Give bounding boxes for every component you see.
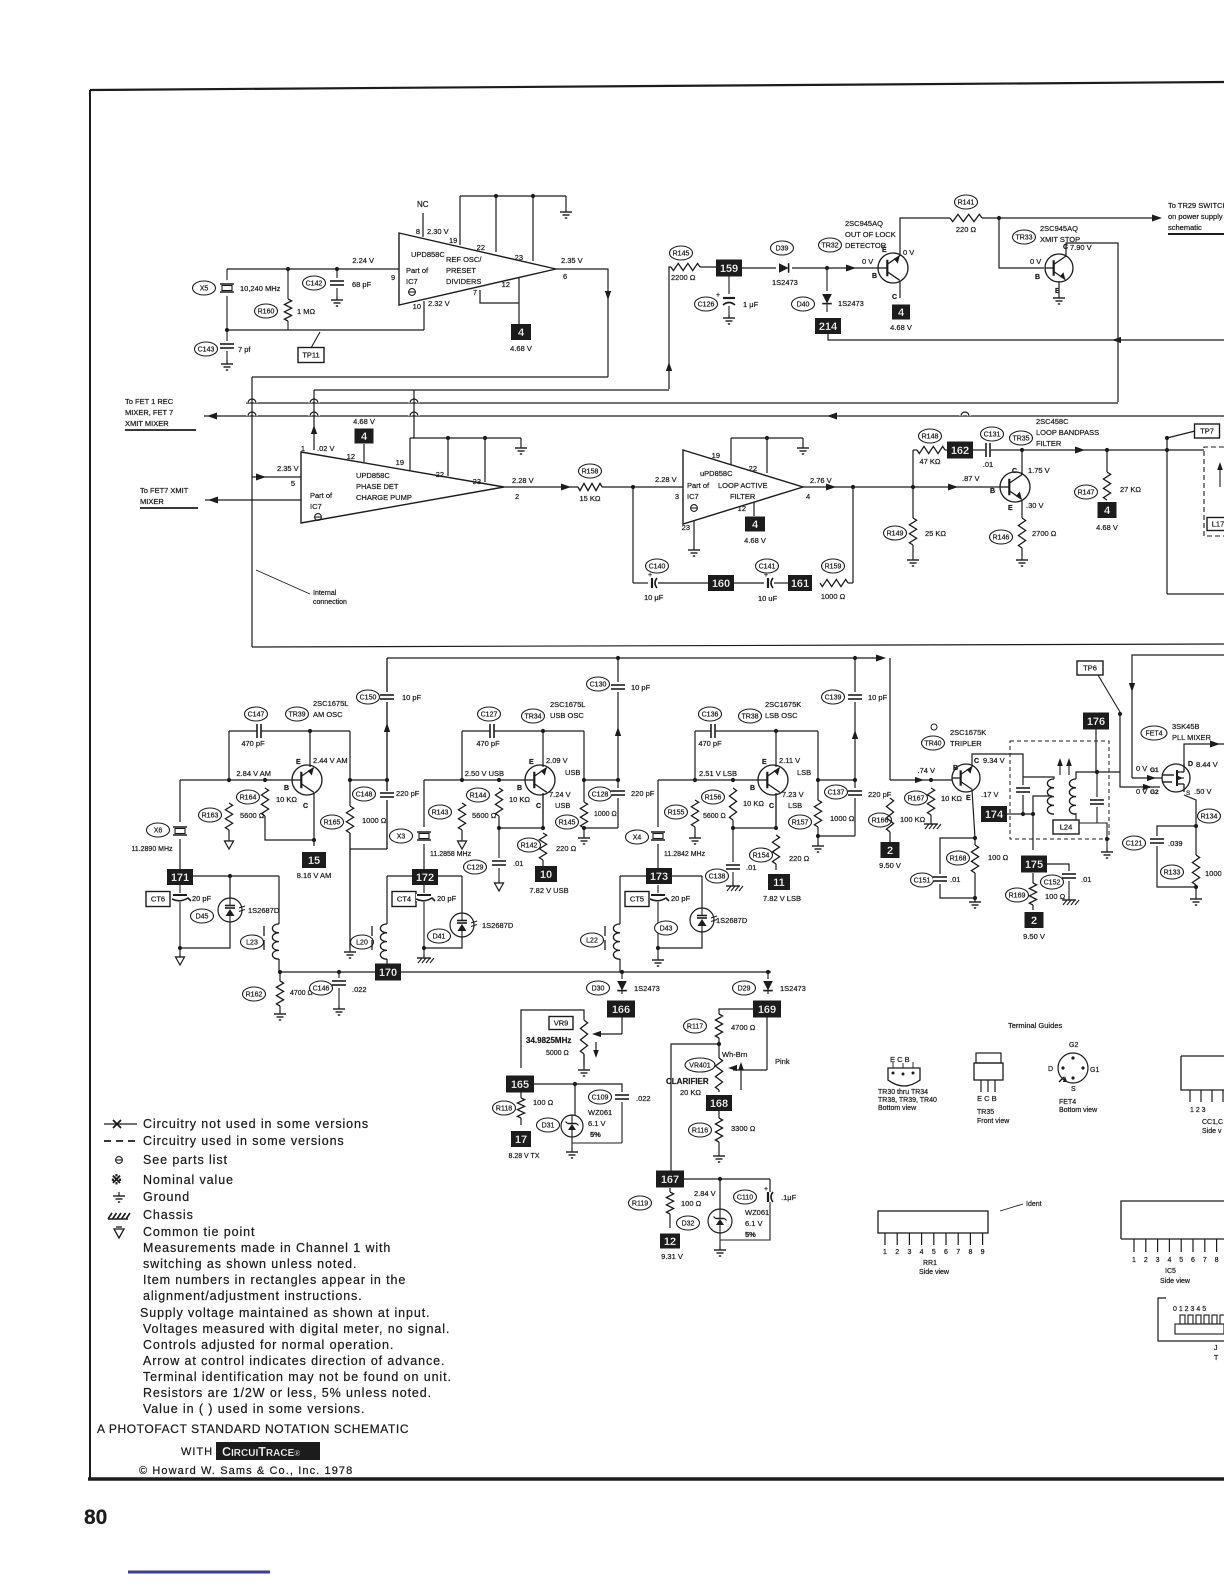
svg-text:J: J [1214,1345,1218,1352]
schematic border frame bottom [88,1477,1224,1481]
u-bus phase det [410,437,521,439]
svg-text:.01: .01 [950,875,960,884]
svg-text:9.31 V: 9.31 V [661,1252,683,1261]
svg-text:470 pF: 470 pF [241,739,265,748]
LSB tank node wires [620,875,646,877]
transistor TR40 label [931,724,937,730]
svg-text:DETECTOR: DETECTOR [845,241,887,250]
svg-text:5600 Ω: 5600 Ω [472,811,497,820]
svg-text:R160: R160 [258,309,275,316]
resistor R160 1M [287,269,289,299]
svg-text:R117: R117 [687,1024,703,1031]
item box 175 [1021,856,1047,873]
svg-text:TR35: TR35 [1012,436,1029,443]
svg-text:+: + [764,572,768,579]
svg-text:E: E [529,759,534,766]
terminal guide IC5 side view [1121,1201,1224,1239]
item box 4 R147 [1098,502,1117,518]
resistor R162 label [243,987,266,1001]
item box 2 tripler [889,832,891,842]
svg-text:1 MΩ: 1 MΩ [297,307,316,316]
svg-text:FILTER: FILTER [730,492,756,501]
svg-text:20 KΩ: 20 KΩ [680,1088,701,1097]
svg-text:AM OSC: AM OSC [313,710,343,719]
svg-text:R156: R156 [705,795,722,802]
svg-text:10 pF: 10 pF [868,693,888,702]
svg-text:10 μF: 10 μF [644,593,664,602]
svg-text:2.44 V AM: 2.44 V AM [313,756,348,765]
svg-text:USB: USB [555,801,570,810]
svg-text:C121: C121 [1126,841,1143,848]
bus B1 vco line [252,644,1224,647]
bus L2 [246,402,1118,404]
capacitor C130 label [587,677,610,691]
svg-text:5000 Ω: 5000 Ω [546,1050,569,1057]
svg-text:6: 6 [944,1249,948,1256]
svg-text:10,240 MHz: 10,240 MHz [240,284,281,293]
svg-text:C152: C152 [1044,880,1061,887]
capacitor tank primary [1022,777,1024,785]
schematic border frame left [89,90,91,1480]
crystal X3 label [390,829,413,843]
D32 ground [719,1233,721,1246]
item box 171 [167,869,193,885]
svg-text:4.68 V: 4.68 V [890,323,912,332]
svg-text:10: 10 [413,302,421,311]
USB tank node wires [387,875,413,877]
svg-text:2: 2 [1031,915,1037,927]
svg-text:8.16 V AM: 8.16 V AM [297,871,332,880]
svg-text:34.9825MHz: 34.9825MHz [526,1036,571,1045]
svg-text:S: S [1071,1086,1076,1093]
svg-text:B: B [284,785,289,792]
USB right vert wire [583,731,585,802]
svg-text:7: 7 [956,1249,960,1256]
svg-text:2.51 V LSB: 2.51 V LSB [699,769,737,778]
svg-text:15 KΩ: 15 KΩ [579,494,600,503]
capacitor C142 68pF [336,269,338,278]
svg-text:OUT OF LOCK: OUT OF LOCK [845,230,896,239]
svg-text:8.28 V TX: 8.28 V TX [508,1153,539,1160]
svg-text:C128: C128 [592,792,609,799]
svg-text:2.35 V: 2.35 V [561,256,583,265]
svg-text:7.90 V: 7.90 V [1070,243,1092,252]
resistor R162 4700 [279,972,281,981]
capacitor C110 label [734,1190,757,1204]
tie point CT6 [178,946,182,950]
op-amp U2 IC7 PHASE DET CHARGE PUMP [301,452,504,523]
resistor R147 label [1075,485,1098,499]
arrows L24 [1057,758,1063,766]
svg-text:+: + [648,572,652,579]
svg-text:4: 4 [898,307,905,319]
LSB right vert wire [817,731,819,800]
svg-text:Internal: Internal [313,590,337,597]
capacitor C110 .1uF [769,1179,771,1192]
resistor R141 label [955,195,978,209]
svg-text:220 Ω: 220 Ω [789,854,810,863]
svg-text:TR34: TR34 [524,714,541,721]
ground CT5 [657,948,659,956]
arrow left bus L3 [207,413,217,420]
svg-text:.50 V: .50 V [1194,787,1212,796]
svg-text:LSB OSC: LSB OSC [765,711,798,720]
svg-text:11.2858 MHz: 11.2858 MHz [430,851,472,858]
svg-text:168: 168 [710,1098,728,1110]
wire L0 to left [252,376,608,378]
item box 4 ref osc [511,324,531,340]
TR38 collector wire [775,793,777,828]
svg-text:23: 23 [515,253,523,262]
svg-text:470 pF: 470 pF [698,739,722,748]
svg-text:C109: C109 [592,1095,609,1102]
varactor D43 label [655,921,678,935]
svg-text:2SC1675K: 2SC1675K [765,700,801,709]
arrow up C139 [852,730,858,739]
bus L3 [204,415,1224,417]
resistor R141 220 [950,214,982,221]
svg-text:To FET7 XMIT: To FET7 XMIT [140,486,189,495]
svg-text:4.68 V: 4.68 V [744,536,766,545]
svg-text:UPD858C: UPD858C [411,250,445,259]
svg-text:IC7: IC7 [310,502,322,511]
svg-text:3: 3 [1156,1257,1160,1264]
svg-text:CLARIFIER: CLARIFIER [666,1077,709,1086]
C128 bottom wire [584,827,618,829]
svg-text:3: 3 [907,1249,911,1256]
arrow up R145 [666,362,672,371]
svg-text:D41: D41 [433,934,446,941]
svg-text:LSB: LSB [788,801,802,810]
bottom osc bus wire [280,971,771,973]
ground R145b [583,828,585,834]
svg-text:2.09 V: 2.09 V [546,756,568,765]
svg-text:1000 Ω: 1000 Ω [362,816,387,825]
svg-text:100 Ω: 100 Ω [681,1199,702,1208]
svg-text:0 V: 0 V [1136,787,1147,796]
AM right vert wire [349,731,351,806]
ground loop filter [802,438,804,444]
svg-text:11.2842 MHz: 11.2842 MHz [664,851,706,858]
ground phase det top [520,438,522,444]
resistor R117 label [684,1019,707,1033]
svg-text:E: E [296,759,301,766]
svg-text:2SC1675L: 2SC1675L [313,699,348,708]
capacitor C126 label [695,297,718,311]
capacitor CT5 20pF [657,885,659,893]
svg-text:23: 23 [682,523,690,532]
diode D29 1S2473 [767,972,769,979]
wire 165 right [534,1083,575,1085]
ground R133 [1195,885,1197,895]
capacitor CT6 20pF [179,884,181,893]
svg-text:Terminal identification may no: Terminal identification may not be found… [143,1370,452,1384]
svg-text:2.30 V: 2.30 V [427,227,449,236]
svg-text:R144: R144 [470,793,487,800]
svg-text:C: C [892,294,897,301]
capacitor C147 470pF [257,724,261,738]
svg-text:6: 6 [1191,1257,1195,1264]
svg-text:R143: R143 [432,810,449,817]
svg-text:on power supply: on power supply [1168,212,1223,221]
svg-text:6.1 V: 6.1 V [588,1119,606,1128]
svg-text:4: 4 [920,1249,924,1256]
svg-text:C136: C136 [702,712,719,719]
resistor R118 100 [520,1092,522,1098]
TR34 collector wire [542,793,544,828]
svg-text:XMIT MIXER: XMIT MIXER [125,419,169,428]
loop bandpass wire [1022,449,1204,451]
capacitor C142 label [303,276,326,290]
svg-text:170: 170 [379,967,397,979]
svg-text:2.84 V AM: 2.84 V AM [236,769,271,778]
svg-text:167: 167 [661,1174,679,1186]
svg-text:C142: C142 [306,281,323,288]
svg-text:L24: L24 [1060,823,1073,832]
chassis CT4 [423,948,425,954]
item box 11 [775,864,777,870]
wire vert 414 pin19 [413,390,415,438]
resistor R156 10K [729,788,736,820]
legend chassis [108,1213,112,1219]
svg-text:1S2687D: 1S2687D [716,916,748,925]
svg-text:R142: R142 [521,843,538,850]
svg-text:D39: D39 [776,246,789,253]
svg-text:R164: R164 [240,795,257,802]
capacitor C129 .01 [498,828,500,858]
terminal guide J bottom right [1158,1298,1224,1341]
svg-text:C141: C141 [759,564,776,571]
svg-text:20 pF: 20 pF [437,894,457,903]
wire 167 right [684,1178,770,1180]
svg-text:C: C [769,803,774,810]
svg-text:2: 2 [1144,1257,1148,1264]
svg-text:LOOP BANDPASS: LOOP BANDPASS [1036,428,1099,437]
svg-text:C138: C138 [709,874,726,881]
capacitor C143 7pF [226,330,228,341]
svg-text:2: 2 [887,845,893,857]
C147 left wire [228,731,230,780]
svg-text:C140: C140 [649,564,666,571]
ground C142 [336,296,338,300]
item box 170 [375,964,401,981]
wire 175 right to C152 [1047,864,1069,871]
transistor TR32 label [819,238,842,252]
capacitor C131 label [981,427,1004,441]
svg-text:NC: NC [417,200,429,209]
svg-text:Part of: Part of [310,491,333,500]
svg-text:8.44 V: 8.44 V [1196,760,1218,769]
svg-text:19: 19 [712,451,720,460]
svg-text:※: ※ [111,1172,122,1187]
AM tank node wire [191,876,230,898]
zener D31 label [537,1118,560,1132]
svg-text:470 pF: 470 pF [476,739,500,748]
svg-text:R145: R145 [673,251,690,258]
svg-text:2.32 V: 2.32 V [428,299,450,308]
resistor R155 5600 [691,800,698,827]
svg-text:TR40: TR40 [924,741,941,748]
svg-text:4.68 V: 4.68 V [353,417,375,426]
trimmer CT5 box [625,892,649,907]
svg-text:.30 V: .30 V [1026,501,1044,510]
svg-text:C143: C143 [198,347,215,354]
svg-text:C148: C148 [356,792,373,799]
svg-text:2.35 V: 2.35 V [277,464,299,473]
svg-text:47 KΩ: 47 KΩ [919,457,940,466]
svg-text:See parts list: See parts list [143,1153,228,1167]
svg-text:22: 22 [477,243,485,252]
svg-text:0 1 2 3 4 5: 0 1 2 3 4 5 [1173,1306,1206,1313]
resistor R145b label [556,815,579,829]
TR40 emitter wire [972,790,975,838]
svg-text:R118: R118 [496,1106,512,1113]
svg-text:B: B [990,488,995,495]
ground R146 [1021,548,1023,556]
svg-text:.87 V: .87 V [962,474,980,483]
svg-text:20 pF: 20 pF [192,894,212,903]
svg-text:R145: R145 [559,820,576,827]
svg-text:TR35: TR35 [977,1109,994,1116]
svg-text:5: 5 [932,1249,936,1256]
svg-text:D31: D31 [542,1123,555,1130]
svg-text:1S2687D: 1S2687D [482,921,514,930]
TP7 vert wire [1166,438,1168,594]
TR32 emitter wire [900,218,950,256]
svg-text:166: 166 [612,1004,630,1016]
resistor R133 1000 [1195,826,1197,855]
hops on buses [248,399,256,403]
svg-text:CT4: CT4 [397,895,411,904]
resistor R144 label [467,788,490,802]
capacitor C150 label [357,690,380,704]
transistor Q TR40 TRIPLER [952,764,980,792]
svg-text:Ident: Ident [1026,1201,1042,1208]
svg-text:100 Ω: 100 Ω [533,1098,554,1107]
wire bottom right mid [1167,593,1224,595]
svg-text:27 KΩ: 27 KΩ [1120,485,1141,494]
capacitor C127 470pF [490,724,494,738]
svg-text:4.68 V: 4.68 V [510,344,532,353]
svg-text:E: E [966,795,971,802]
svg-text:R157: R157 [792,820,809,827]
svg-text:R158: R158 [582,469,599,476]
TR39 emitter wire [309,731,311,767]
svg-text:.1μF: .1μF [781,1193,797,1202]
svg-text:10 KΩ: 10 KΩ [941,794,962,803]
resistor R169 label [1006,888,1029,902]
svg-text:LSB: LSB [797,768,811,777]
capacitor C126 1uF [728,276,730,294]
capacitor C121 .039 [1157,826,1196,836]
item box 169 [753,1001,781,1018]
svg-text:schematic: schematic [1168,223,1202,232]
svg-text:connection: connection [313,599,347,606]
zener D31 WZ061 [574,1084,576,1115]
item box 167 [656,1171,684,1188]
L24 secondary bottom ground [1097,823,1107,848]
capacitor C131 .01 [973,449,985,451]
svg-text:R159: R159 [825,564,842,571]
bus B2 osc feed [387,657,880,659]
svg-text:5: 5 [291,479,295,488]
trimmer CT6 box [146,892,170,907]
svg-text:10 KΩ: 10 KΩ [743,799,764,808]
svg-text:4.68 V: 4.68 V [1096,523,1118,532]
transistor Q TR33 [1045,254,1073,282]
svg-text:4700 Ω: 4700 Ω [290,990,313,997]
crystal X4 [657,780,659,827]
R156 bottom wire [732,820,734,828]
wire pin5 input [252,476,301,478]
svg-text:IC7: IC7 [687,492,699,501]
svg-text:B: B [872,273,877,280]
svg-text:X3: X3 [397,834,406,841]
svg-text:11: 11 [773,877,785,889]
legend common tie point [114,1229,124,1238]
svg-text:22: 22 [749,464,757,473]
FET4 source wire [1184,795,1196,826]
svg-text:C: C [303,803,308,810]
svg-text:Pink: Pink [775,1057,790,1066]
capacitor C150 10pF [386,658,388,692]
TR40 collector wire [972,754,1023,777]
resistor R144 10K [495,788,502,816]
zener D32 WZ061 [719,1179,721,1209]
svg-text:8: 8 [416,227,420,236]
svg-text:2.24 V: 2.24 V [352,256,374,265]
wire vert R148 R149 [912,450,914,518]
fet4 g1 bus right [1132,655,1224,778]
L24 secondary top wire [1097,771,1120,773]
wire TP6 junction to fet g2 [1120,714,1160,787]
svg-text:R167: R167 [908,796,925,803]
svg-text:.17 V: .17 V [981,790,999,799]
svg-text:E C B: E C B [977,1094,997,1103]
capacitor C139 label [822,690,845,704]
item box 165 [506,1076,534,1093]
resistor R164 label [237,790,260,804]
svg-text:Ground: Ground [143,1190,190,1204]
resistor R118 label [493,1101,516,1115]
capacitor C151 .01 [940,838,975,874]
crystal X3 [423,780,425,827]
svg-text:.01: .01 [513,859,523,868]
svg-text:R155: R155 [668,810,685,817]
chassis R167 [930,815,932,820]
svg-text:E: E [1008,505,1013,512]
varactor D45 1S2687D [218,898,242,922]
resistor R133 label [1161,865,1184,879]
svg-text:12: 12 [664,1236,676,1248]
diode D30 label [587,981,610,995]
svg-text:7 pf: 7 pf [238,345,251,354]
capacitor C140 label [646,559,669,573]
resistor R145 1000 USB [580,802,587,828]
resistor R143 5600 [458,803,465,830]
resistor R148 label [919,429,942,443]
svg-text:+: + [764,1186,768,1193]
bus L1 [314,389,669,391]
resistor R147 27K [1106,450,1108,472]
coil L23 [278,876,280,924]
svg-text:2.50 V USB: 2.50 V USB [465,769,504,778]
svg-text:R148: R148 [922,434,939,441]
ground R162 [279,1006,281,1010]
svg-text:100 Ω: 100 Ω [1045,892,1066,901]
resistor R143 label [429,805,452,819]
item box 176 [1083,713,1109,730]
